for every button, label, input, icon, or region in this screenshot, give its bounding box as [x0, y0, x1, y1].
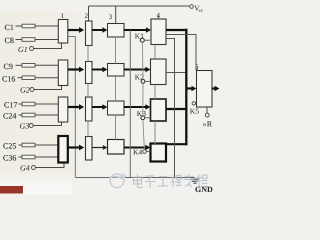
block U3 row2 — [108, 64, 125, 77]
wire: stage3 chain row1-row2 — [115, 37, 117, 64]
svg-text:G4: G4 — [20, 164, 30, 173]
svg-text:C17: C17 — [4, 101, 17, 110]
wire: stage4 chain row2-row3 — [154, 85, 156, 100]
svg-text:C25: C25 — [3, 142, 16, 151]
arrow row1 stage1->stage2 — [68, 27, 84, 33]
wire: stage2 chain row2-row3 — [87, 84, 89, 98]
svg-text:C9: C9 — [4, 62, 13, 71]
svg-text:C24: C24 — [3, 112, 16, 121]
wire: stage3 chain row3-row4 — [115, 115, 117, 140]
switch K1: label, contact circle, tick — [135, 32, 150, 43]
arrow row2 stage2->stage3 — [92, 67, 107, 73]
bus vertical (thick collecting line) — [185, 29, 187, 146]
wire: block2 row1 riser to Vcc rail — [88, 6, 90, 21]
svg-text:3: 3 — [109, 13, 113, 21]
svg-text:K1: K1 — [135, 32, 144, 41]
wire K chain K1-K2 — [141, 42, 144, 79]
arrow row3 stage1->stage2 — [68, 104, 84, 110]
switch K5: label, contact circle, tick — [190, 102, 199, 116]
block U3 row1 (stage 3) — [108, 13, 125, 37]
wire: stage4 chain row3-row4 — [154, 121, 156, 144]
block U5 (output stage 5) — [195, 63, 212, 108]
terminal R: pin, circle, label — [203, 107, 213, 129]
watermark text dian zi gong cheng zhuan ji (faux glyphs) — [134, 174, 208, 188]
arrow row1 stage2->stage3 — [92, 27, 107, 33]
block U2 row1 (stage 2) — [85, 12, 93, 46]
arrow row3 stage3->stage4 — [124, 104, 150, 110]
input G2 — [20, 86, 62, 95]
wire K chain K3-K4 — [143, 120, 145, 150]
arrow row2 stage1->stage2 — [68, 67, 84, 73]
block U4 row1 (stage 4) — [151, 12, 166, 45]
ground rail wire — [75, 177, 195, 179]
wire row1 stage4 output to bus (thick) — [166, 29, 187, 31]
input C25 — [3, 142, 58, 151]
arrow row1 stage3->stage4 — [124, 27, 151, 33]
wire: stage4 chain row1-row2 — [154, 45, 156, 60]
paper background — [0, 0, 220, 194]
svg-text:G1: G1 — [18, 45, 28, 54]
arrow row3 stage2->stage3 — [92, 104, 107, 110]
block U1 row2 — [58, 60, 68, 86]
block U3 row3 — [108, 101, 125, 115]
block U3 row4 — [108, 140, 125, 155]
input G4 — [20, 163, 64, 173]
block U4 row3 (heavy stroke) — [151, 99, 167, 121]
svg-text:G3: G3 — [20, 122, 30, 131]
svg-text:2: 2 — [85, 12, 89, 20]
svg-text:o: o — [203, 122, 206, 128]
switch K2: label, contact circle, tick — [135, 73, 151, 84]
input C8: label, wire, resistor R2, wire to block 1 — [5, 36, 59, 45]
arrow row4 stage2->stage3 — [92, 145, 107, 150]
svg-text:R: R — [207, 120, 213, 129]
svg-text:C36: C36 — [3, 154, 16, 163]
svg-text:G2: G2 — [20, 86, 30, 95]
block U1 row1 (stage 1) — [58, 12, 68, 43]
input G3 — [20, 122, 62, 131]
input C17 — [4, 101, 58, 110]
wire row2 stage4 output to bus (thin) — [166, 72, 186, 74]
svg-text:K5: K5 — [190, 107, 199, 116]
svg-text:C8: C8 — [5, 36, 14, 45]
svg-text:GND: GND — [195, 185, 213, 194]
svg-text:C16: C16 — [2, 75, 15, 84]
arrow row4 stage1->stage2 — [68, 145, 84, 151]
block U2 row2 — [86, 62, 93, 84]
wire: stage2 chain row3-row4 — [87, 121, 89, 137]
block U1 row4 (heavy stroke) — [58, 136, 68, 163]
switch K3: label, contact circle, tick — [137, 109, 151, 120]
watermark logo swirl — [110, 173, 128, 188]
block U2 row3 — [86, 97, 93, 121]
wire drop from row1 line down to ground rail — [129, 30, 131, 178]
svg-text:C1: C1 — [5, 23, 14, 32]
wire: stage2 chain row1-row2 — [87, 46, 89, 62]
switch K4: label, contact circle — [133, 148, 151, 157]
wire row4 stage4 top to bus (thick) — [166, 143, 188, 145]
input C36 — [3, 154, 58, 163]
svg-text:cc: cc — [199, 9, 204, 14]
block U4 row2 — [151, 59, 167, 85]
input C24 — [3, 112, 58, 121]
wire stage4 row1 tap down right side — [166, 39, 175, 178]
arrow block5 output — [212, 86, 219, 91]
wire K chain K2-K3 — [142, 83, 144, 115]
arrow bus -> block5 input — [186, 86, 196, 91]
Vcc rail wire — [89, 5, 190, 7]
input C1: label, wire, resistor R1, wire to block 1 — [5, 23, 59, 32]
wire: stage3 row1 riser to Vcc rail — [115, 6, 117, 24]
block U2 row4 (heavy stroke) — [86, 137, 93, 161]
wire stage4 row1 tap to block5 top — [166, 35, 196, 71]
arrow row4 stage3->stage4 — [124, 145, 150, 151]
ground symbol — [191, 179, 200, 183]
input C9 — [4, 62, 59, 71]
wire: common line from block1 row1 down to ground rail — [68, 37, 76, 178]
wire: stage3 chain row2-row3 — [115, 76, 117, 101]
arrow row2 stage3->stage4 — [124, 67, 150, 73]
svg-text:1: 1 — [61, 12, 65, 20]
block U4 row4 (heavy stroke) — [151, 144, 167, 162]
block U1 row3 — [58, 97, 68, 122]
wire row3 stage4 output to bus (thick) — [166, 108, 187, 110]
watermark red logo bar bottom-left — [0, 186, 23, 194]
input G1: label, terminal circle, wire to block 1 bottom — [18, 43, 62, 54]
input C16 — [2, 75, 58, 84]
Vcc terminal — [190, 4, 204, 15]
svg-text:K4: K4 — [133, 148, 142, 157]
